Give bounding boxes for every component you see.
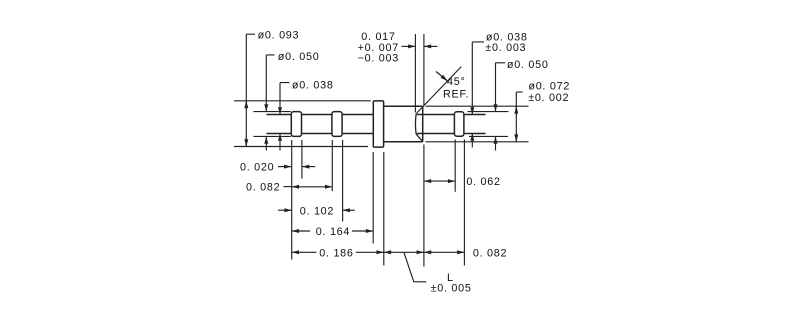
svg-text:ø0. 072: ø0. 072 xyxy=(528,81,570,93)
extension line ring1 right below xyxy=(301,140,303,179)
extension line Ø0.050 right top xyxy=(468,111,509,113)
dim Ø0.093 arrowheads xyxy=(245,101,247,110)
extension line Ø0.093 bottom xyxy=(234,146,368,148)
extension line ring3 right below xyxy=(463,140,465,266)
extension line 0.017 right up xyxy=(423,34,425,105)
svg-text:0. 164: 0. 164 xyxy=(316,226,350,238)
chamfer bottom edge xyxy=(416,134,423,142)
barb ring 2 Ø0.050 xyxy=(332,112,342,137)
dim Ø0.038 left top arrow xyxy=(280,83,290,115)
dim Ø0.038 right top arrow xyxy=(472,42,484,115)
dim 0.186 right segment xyxy=(356,251,384,253)
barb ring 3 Ø0.050 xyxy=(454,112,464,136)
svg-text:±0. 005: ±0. 005 xyxy=(431,283,472,295)
extension line Ø0.093 top xyxy=(234,100,371,102)
dim L line xyxy=(384,251,424,253)
dim 0.020 left arrow xyxy=(278,166,291,168)
svg-text:0. 082: 0. 082 xyxy=(246,182,280,194)
dim 0.102 left arrow xyxy=(278,209,292,211)
dim 0.102 right arrow xyxy=(343,209,355,211)
dim 0.062 line xyxy=(424,180,455,182)
extension line flange left below xyxy=(372,152,374,244)
svg-text:ø0. 050: ø0. 050 xyxy=(507,59,549,71)
extension line Ø0.072 bottom right xyxy=(426,141,529,143)
svg-text:ø0. 038: ø0. 038 xyxy=(292,79,334,91)
svg-text:0. 186: 0. 186 xyxy=(319,248,353,260)
svg-text:45°: 45° xyxy=(447,76,466,88)
extension line Ø0.050 left bottom xyxy=(254,135,291,137)
sleeve Ø0.072 outline xyxy=(384,106,423,142)
svg-text:0. 082: 0. 082 xyxy=(473,248,507,260)
extension line ring1 left below xyxy=(291,140,293,260)
bore entry arc xyxy=(414,114,417,135)
extension line Ø0.050 left top xyxy=(254,111,291,113)
extension line ring3 left below xyxy=(454,140,456,192)
svg-text:0. 102: 0. 102 xyxy=(300,206,334,218)
dim Ø0.038 right bottom arrow xyxy=(471,134,473,148)
45 deg small arrow xyxy=(436,72,448,82)
extension line ring2 left below xyxy=(331,140,333,191)
L leader polyline xyxy=(404,253,426,282)
extension line 0.017 left up xyxy=(414,34,416,113)
dim Ø0.038 left bottom arrow xyxy=(279,134,281,151)
sleeve end face xyxy=(422,106,424,142)
extension line flange right below xyxy=(383,152,385,266)
svg-text:−0. 003: −0. 003 xyxy=(358,52,399,64)
dim 0.017 left arrow xyxy=(402,45,416,47)
right shaft Ø0.038 outline xyxy=(417,115,486,134)
extension line Ø0.050 right bottom xyxy=(469,135,508,137)
dim Ø0.050 right top arrow xyxy=(496,63,506,112)
extension line ring2 right below xyxy=(342,140,344,222)
barb ring 1 Ø0.050 xyxy=(291,112,301,137)
flange Ø0.093 xyxy=(373,101,383,147)
dim 0.164 left segment xyxy=(292,230,310,232)
dim Ø0.093 leader and line xyxy=(246,34,255,146)
dim 0.020 right arrow xyxy=(302,166,315,168)
svg-text:0. 062: 0. 062 xyxy=(466,176,500,188)
45 deg chamfer leader diagonal xyxy=(416,67,461,114)
extension line end face below xyxy=(423,145,425,267)
dim 0.082 right line xyxy=(424,251,465,253)
dim Ø0.050 left top arrow xyxy=(266,55,274,112)
dim 0.082 left line xyxy=(292,186,333,188)
dim 0.017 right arrow xyxy=(424,45,438,47)
svg-text:±0. 003: ±0. 003 xyxy=(485,42,526,54)
svg-text:ø0. 050: ø0. 050 xyxy=(278,51,320,63)
dim 0.186 left segment xyxy=(292,251,317,253)
svg-text:0. 020: 0. 020 xyxy=(240,161,274,173)
svg-text:±0. 002: ±0. 002 xyxy=(528,92,569,104)
dim Ø0.072 arrowheads xyxy=(515,106,517,115)
dim Ø0.072 leader and line xyxy=(516,92,522,142)
dim Ø0.050 left bottom arrow xyxy=(265,136,267,150)
svg-text:REF.: REF. xyxy=(443,89,469,101)
dim Ø0.050 right bottom arrow xyxy=(495,136,497,150)
left shaft Ø0.038 outline xyxy=(266,115,373,134)
extension line Ø0.072 top right xyxy=(426,105,529,107)
dim 0.164 right segment xyxy=(352,230,373,232)
dim 0.082 left lead-in xyxy=(284,186,292,188)
svg-text:ø0. 093: ø0. 093 xyxy=(258,29,300,41)
